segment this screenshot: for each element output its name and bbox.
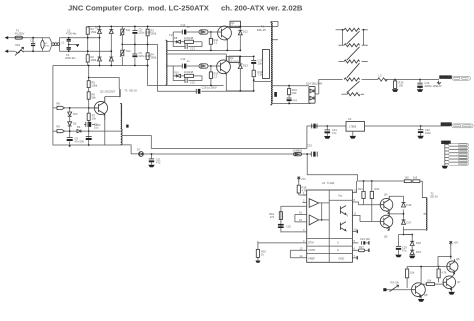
capacitor C25 <box>278 224 291 229</box>
svg-text:2: 2 <box>303 199 305 203</box>
choke L2 winding 2 <box>339 44 368 60</box>
pin 15 <box>295 214 307 222</box>
diode D17 <box>402 220 412 224</box>
diode D7 5VSB <box>137 148 143 157</box>
capacitor C15 <box>173 76 202 85</box>
capacitor C19 <box>417 79 437 88</box>
capacitor C2Y <box>66 29 77 48</box>
regulator U2 <box>346 117 365 139</box>
svg-text:C: C <box>337 241 339 245</box>
wire to T1 primary <box>254 22 278 82</box>
svg-text:47u: 47u <box>332 131 337 135</box>
pin 14 <box>290 250 306 258</box>
diode D15 5VSB line <box>293 148 303 156</box>
capacitor C22 <box>417 125 431 138</box>
resistor R27 <box>422 279 444 287</box>
svg-text:PS-ON: PS-ON <box>391 281 399 285</box>
svg-text:47u 50V: 47u 50V <box>75 139 85 143</box>
svg-text:C23: C23 <box>307 144 312 148</box>
resistor R23 <box>404 176 411 183</box>
svg-text:5: 5 <box>354 239 356 243</box>
fuse F1 <box>15 29 25 40</box>
wire doubler midpoint <box>122 43 157 45</box>
capacitor C20 <box>312 124 317 129</box>
svg-text:L1: L1 <box>62 41 65 45</box>
svg-text:D16: D16 <box>407 203 412 207</box>
svg-text:TL494: TL494 <box>327 181 335 185</box>
capacitor CX2 (oval) <box>41 38 50 52</box>
resistor R18 <box>297 182 307 196</box>
pin 11 <box>354 212 357 216</box>
capacitor C18 <box>287 98 298 104</box>
svg-text:474: 474 <box>293 99 298 103</box>
choke L2 winding 1 <box>336 28 368 45</box>
diode box D9 <box>199 30 218 34</box>
svg-text:1k5: 1k5 <box>405 176 410 180</box>
choke L2 winding 3 <box>339 60 368 78</box>
svg-text:TH2: TH2 <box>126 49 131 53</box>
capacitor C5 <box>132 26 151 65</box>
capacitor C21 <box>324 125 337 139</box>
junction dots bridge <box>87 26 112 67</box>
wire Q6 emitter to Q7 <box>452 273 455 277</box>
transistor Q4 <box>380 193 393 214</box>
svg-text:EE-19: EE-19 <box>130 88 138 92</box>
PS-ON input <box>383 281 411 292</box>
transformer T1 core mark <box>274 92 277 97</box>
+5V ref arrow <box>297 177 306 182</box>
capacitor C24 pin5 <box>360 237 370 245</box>
svg-text:6: 6 <box>354 247 356 251</box>
ground <box>417 88 423 92</box>
wire Q3 supply column <box>88 66 90 132</box>
svg-text:R9: R9 <box>57 125 61 129</box>
resistor R10 <box>181 36 202 44</box>
resistor R14 <box>252 64 263 92</box>
pin 8 <box>352 198 356 202</box>
wire PSON collector rail <box>407 267 447 283</box>
connector AC2 <box>53 125 77 133</box>
AC input terminal N <box>5 50 15 53</box>
svg-text:2.2: 2.2 <box>214 74 218 78</box>
wire T3 aux out <box>122 136 307 149</box>
svg-text:150k: 150k <box>151 32 157 36</box>
svg-text:16: 16 <box>299 211 302 215</box>
resistor R12 <box>181 70 202 78</box>
+5V arrow PSON <box>449 241 458 246</box>
svg-text:C1: C1 <box>30 39 34 43</box>
svg-text:D18: D18 <box>416 241 421 245</box>
svg-text:8: 8 <box>354 198 356 202</box>
pin 9 <box>347 214 357 218</box>
svg-text:+5V: +5V <box>301 177 306 181</box>
bridge diode D4 <box>109 45 113 66</box>
transistor Q7 <box>443 276 461 295</box>
pin 2 <box>303 199 307 203</box>
capacitor C26 <box>395 235 407 258</box>
resistor R3 <box>146 26 157 52</box>
resistor R17 pin6 <box>358 245 369 252</box>
wire driver emitters <box>386 211 388 229</box>
wire 5VSB down to Vcc rail <box>307 154 404 181</box>
wire T3 primary loop <box>89 78 120 97</box>
svg-text:A: A <box>337 248 339 252</box>
wire 5VSB to reg <box>307 126 346 148</box>
svg-text:4A 250V: 4A 250V <box>15 32 25 36</box>
transistor Q6 <box>438 246 460 275</box>
inductor L3 <box>378 74 388 82</box>
arrow +12V <box>436 81 442 88</box>
pin 6 <box>352 247 358 251</box>
svg-text:Q3: Q3 <box>100 90 104 94</box>
svg-text:14: 14 <box>300 254 303 258</box>
svg-text:VREF: VREF <box>308 257 315 261</box>
svg-text:T3: T3 <box>124 88 128 92</box>
wire bottom rail <box>53 66 166 86</box>
svg-text:7: 7 <box>354 254 356 258</box>
wire rectifier out <box>315 80 343 95</box>
resistor R16 <box>394 79 404 89</box>
capacitor C1 <box>30 37 35 52</box>
svg-text:BLACK: BLACK <box>442 140 451 144</box>
diode D6 <box>77 125 121 133</box>
resistor R21 <box>357 180 381 205</box>
svg-text:D7: D7 <box>137 148 141 152</box>
svg-text:Q6: Q6 <box>456 257 460 261</box>
resistor R26 <box>437 266 447 283</box>
transistor Q3 <box>89 90 116 120</box>
svg-text:100u: 100u <box>425 131 431 135</box>
common mode choke L1 circles <box>50 38 60 52</box>
svg-text:C16 1u 250V: C16 1u 250V <box>202 85 217 89</box>
svg-text:3: 3 <box>303 228 305 232</box>
svg-text:10n: 10n <box>258 61 263 65</box>
transformer T3 winding <box>121 88 138 145</box>
capacitor C10 <box>84 122 101 127</box>
resistor R19 <box>269 212 282 220</box>
svg-text:10: 10 <box>354 227 357 231</box>
diode D18 <box>403 234 422 246</box>
pin 13 <box>290 247 306 251</box>
svg-text:U2: U2 <box>348 117 352 121</box>
label BLACK <box>441 140 451 144</box>
transformer T3 primary winding <box>118 89 121 97</box>
svg-text:1u: 1u <box>187 25 190 29</box>
wire AC line top <box>23 37 100 39</box>
capacitor C11 <box>149 153 161 164</box>
svg-text:C15: C15 <box>190 81 195 85</box>
diode box D11 <box>199 64 217 68</box>
svg-text:JNC Computer Corp.mod. LC-250A: JNC Computer Corp.mod. LC-250ATXch. 200-… <box>68 4 303 13</box>
thermistor TH1 <box>120 26 131 65</box>
svg-text:47u: 47u <box>402 248 407 252</box>
svg-text:VR1: VR1 <box>15 43 21 47</box>
svg-text:D8: D8 <box>174 36 178 40</box>
wire Q3 emitter down <box>104 120 106 145</box>
capacitor C9 <box>67 130 85 147</box>
wire midpoint riser <box>158 44 254 91</box>
resistor R24 <box>413 176 427 198</box>
svg-text:150k: 150k <box>91 30 97 34</box>
wire T3 sec out <box>121 145 311 154</box>
svg-text:2SC2625: 2SC2625 <box>231 26 241 28</box>
thermistor TH2 <box>120 44 131 57</box>
connector GND table <box>442 143 469 168</box>
svg-text:GND: GND <box>339 257 345 261</box>
label VIOLET <box>441 122 452 126</box>
svg-text:D10: D10 <box>174 70 179 74</box>
svg-text:TH1: TH1 <box>126 28 131 32</box>
wire +12V line <box>362 79 439 81</box>
pin 2 wire <box>281 205 307 207</box>
wire AC line bottom <box>23 50 111 52</box>
svg-text:Q1: Q1 <box>231 21 235 25</box>
wire Vcc rail to pin12 <box>399 234 413 236</box>
transistor Q1 <box>218 21 241 41</box>
diode D8 <box>173 36 180 43</box>
svg-text:2200 4kv: 2200 4kv <box>65 56 76 60</box>
svg-text:ERL-35: ERL-35 <box>257 28 266 32</box>
svg-text:2SC2625: 2SC2625 <box>230 61 240 63</box>
ground <box>392 89 398 92</box>
svg-text:11: 11 <box>354 212 357 216</box>
diode D19 <box>409 246 421 259</box>
pin 12 <box>352 181 357 193</box>
pin 1 <box>303 191 307 195</box>
svg-text:C25: C25 <box>286 225 291 229</box>
svg-text:15: 15 <box>299 218 302 222</box>
resistor R22 <box>357 180 381 221</box>
transformer T2 primary drive <box>403 192 439 231</box>
svg-text:4: 4 <box>303 239 305 243</box>
transistor Q8 <box>412 283 429 302</box>
transformer T2 winding <box>166 33 173 86</box>
capacitor C13 <box>173 42 202 51</box>
svg-text:150k: 150k <box>151 56 157 60</box>
connector AC1 <box>53 101 89 109</box>
pin 3 <box>281 228 307 232</box>
svg-text:D12: D12 <box>243 30 248 34</box>
bridge diode D2 <box>95 26 102 66</box>
svg-text:100: 100 <box>399 83 404 87</box>
svg-text:100k: 100k <box>92 84 98 88</box>
svg-text:D6: D6 <box>77 125 81 129</box>
svg-text:VIOLET: VIOLET <box>441 122 451 126</box>
connector +5VSB <box>452 124 474 128</box>
resistor R20 pin4 <box>255 241 266 262</box>
svg-text:6V2: 6V2 <box>73 112 78 116</box>
resistor R7 <box>87 113 96 120</box>
svg-text:27k: 27k <box>270 215 275 219</box>
diode D5 <box>68 122 77 138</box>
diode D16 <box>402 203 412 207</box>
svg-text:275V: 275V <box>45 46 50 48</box>
svg-text:DTM: DTM <box>308 241 314 245</box>
resistor R1 <box>86 26 97 54</box>
capacitor C16 coupling <box>196 85 217 93</box>
svg-text:1N4148: 1N4148 <box>184 36 194 40</box>
svg-text:L7805: L7805 <box>349 125 357 129</box>
pin 16 <box>295 211 307 215</box>
rectifier D14 dual <box>306 82 323 104</box>
transistor Q2 <box>217 56 240 74</box>
svg-text:C10: C10 <box>96 123 101 127</box>
pin 7 <box>352 254 357 260</box>
svg-text:CNTR: CNTR <box>308 248 315 252</box>
choke L2 winding 4 on 12V line <box>344 78 359 93</box>
svg-text:56k: 56k <box>92 96 97 100</box>
resistor R13 base Q2 <box>209 65 219 86</box>
chassis ground arrow <box>62 41 80 48</box>
wire driver collectors <box>389 196 403 234</box>
capacitor C6 <box>132 26 151 67</box>
resistor R15 <box>288 85 298 97</box>
svg-text:1k5: 1k5 <box>413 176 418 180</box>
capacitor C23 <box>307 144 317 157</box>
svg-text:10k: 10k <box>410 271 415 275</box>
svg-text:1N4148: 1N4148 <box>184 70 194 74</box>
svg-text:13: 13 <box>300 247 303 251</box>
svg-text:C13: C13 <box>190 47 195 51</box>
diode D12 <box>238 26 248 52</box>
svg-text:4700 4kv: 4700 4kv <box>66 32 77 36</box>
svg-text:Q4: Q4 <box>384 193 388 197</box>
svg-text:+12V: +12V <box>436 84 442 88</box>
pin 5 <box>352 239 358 243</box>
svg-text:4.7k: 4.7k <box>442 271 448 275</box>
svg-text:330: 330 <box>292 91 297 95</box>
wire Q2 collector rail <box>226 56 253 91</box>
svg-text:R8: R8 <box>57 101 61 105</box>
svg-text:D14 SBL2040: D14 SBL2040 <box>306 82 323 86</box>
capacitor C3Y <box>65 47 76 60</box>
svg-text:T2: T2 <box>169 33 173 37</box>
label YELLOW <box>439 75 451 79</box>
wire T1 secondary loop <box>272 86 310 104</box>
pin 10 <box>352 227 358 233</box>
svg-text:C14: C14 <box>181 57 186 61</box>
ground <box>148 162 154 167</box>
transistor Q5 <box>380 214 393 239</box>
AC input terminal L <box>5 36 15 39</box>
svg-text:+5V: +5V <box>454 241 459 245</box>
wire +5VSB out <box>365 125 451 127</box>
resistor R6 <box>87 92 96 100</box>
svg-text:L3: L3 <box>379 74 382 78</box>
svg-text:U1: U1 <box>322 181 326 185</box>
connector +12V <box>452 76 471 80</box>
op-amp U1 TL494 <box>307 181 353 262</box>
wire T2 leads <box>166 42 173 66</box>
transformer T1 winding <box>257 22 273 106</box>
svg-text:YELLOW: YELLOW <box>440 75 451 79</box>
svg-text:9: 9 <box>347 214 349 218</box>
resistor R2 <box>86 55 97 66</box>
svg-text:R22: R22 <box>375 187 380 191</box>
svg-text:R17: R17 <box>359 245 364 249</box>
bridge diode D1 <box>98 26 102 44</box>
svg-text:R21: R21 <box>358 187 363 191</box>
pin 4 DTM <box>258 239 307 243</box>
svg-text:D13: D13 <box>243 63 248 67</box>
wire drive rails <box>166 50 240 85</box>
transformer T1 aux box <box>263 50 270 79</box>
diode D13 <box>238 56 248 92</box>
svg-text:C24 102: C24 102 <box>360 237 370 241</box>
wire standby box left edge <box>53 66 121 146</box>
capacitor C8 <box>86 65 99 146</box>
varistor VAR1 <box>15 43 24 56</box>
svg-text:1u: 1u <box>187 59 190 63</box>
choke L2 winding 5 <box>342 93 365 96</box>
svg-text:47u: 47u <box>156 160 161 164</box>
resistor R25 <box>406 267 415 288</box>
wire Q1 emitter <box>227 40 240 50</box>
zener ZD1 <box>68 107 78 122</box>
svg-text:D17: D17 <box>407 220 412 224</box>
wire +310V top rail <box>88 25 278 27</box>
resistor R5 <box>87 81 98 88</box>
svg-text:2.2: 2.2 <box>214 41 218 45</box>
svg-text:C12: C12 <box>181 23 186 27</box>
svg-text:D19: D19 <box>416 250 421 254</box>
svg-text:150k: 150k <box>91 58 97 62</box>
svg-text:4.7k: 4.7k <box>302 188 308 192</box>
bridge diode D3 <box>109 26 113 44</box>
svg-text:Q5: Q5 <box>384 235 388 239</box>
svg-text:10k: 10k <box>427 279 432 283</box>
svg-text:Vcc: Vcc <box>338 194 343 198</box>
feedback loop wires <box>280 206 282 232</box>
capacitor C12 <box>173 23 199 42</box>
svg-text:1N5819: 1N5819 <box>293 148 303 152</box>
svg-text:EE-16: EE-16 <box>431 195 439 199</box>
capacitor C17 <box>251 56 263 66</box>
svg-text:10k: 10k <box>92 117 97 121</box>
svg-text:2SC5027: 2SC5027 <box>105 90 116 94</box>
svg-text:Q8: Q8 <box>424 293 428 297</box>
svg-text:Q7: Q7 <box>457 280 461 284</box>
diode D10 <box>173 70 180 77</box>
capacitor C14 lower <box>173 57 199 76</box>
resistor R4 <box>146 26 157 67</box>
resistor R11 base Q1 <box>209 31 218 51</box>
